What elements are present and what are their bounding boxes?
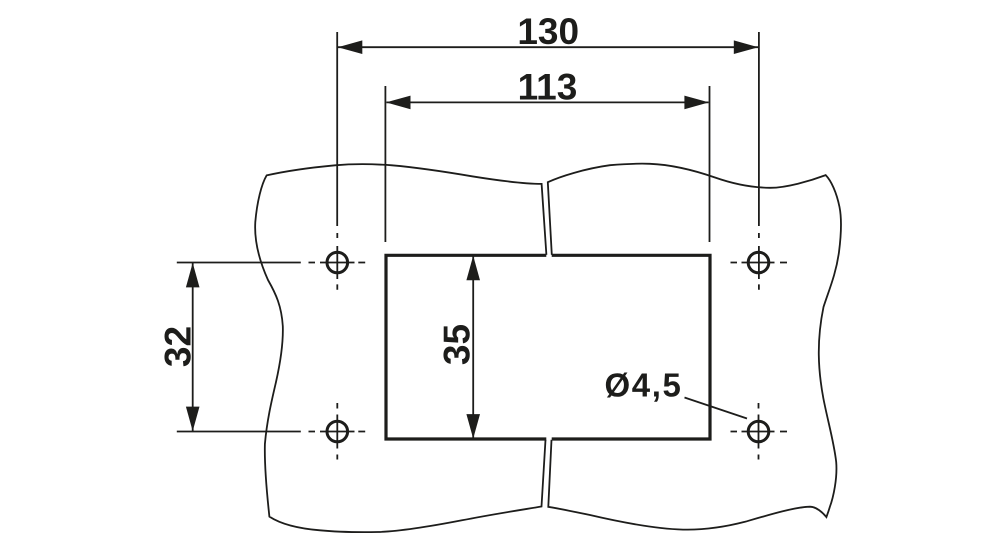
centerline horizontal bottom-right hole bbox=[731, 431, 788, 433]
dimension line 35 bbox=[472, 256, 474, 439]
cutout rectangle right part bbox=[552, 255, 710, 439]
arrowhead 32 top bbox=[186, 263, 200, 288]
dimension line 113 bbox=[386, 101, 708, 103]
dimension line 32 bbox=[192, 263, 194, 431]
centerline horizontal top-right hole bbox=[731, 262, 788, 264]
cutout rectangle left part bbox=[386, 255, 546, 439]
hole top-right bbox=[748, 252, 769, 273]
svg-text:Ø4,5: Ø4,5 bbox=[605, 367, 683, 404]
hole bottom-left bbox=[327, 421, 348, 442]
centerline vertical bottom-right hole bbox=[758, 403, 760, 460]
extension line 113 left bbox=[384, 86, 386, 242]
hole top-left bbox=[327, 252, 348, 273]
dimension line 130 bbox=[338, 46, 758, 48]
arrowhead 113 right bbox=[684, 96, 709, 110]
panel left piece outline bbox=[255, 164, 546, 532]
svg-text:35: 35 bbox=[437, 324, 478, 365]
hole bottom-right bbox=[748, 421, 769, 442]
extension line 130 right bbox=[758, 32, 760, 226]
centerline horizontal top-left hole bbox=[309, 262, 366, 264]
svg-text:113: 113 bbox=[518, 66, 578, 107]
centerline vertical bottom-left hole bbox=[336, 403, 338, 460]
arrowhead 130 left bbox=[338, 40, 363, 54]
arrowhead 32 bottom bbox=[186, 407, 200, 432]
extension line 32 top bbox=[177, 262, 301, 264]
svg-text:32: 32 bbox=[157, 326, 198, 367]
centerline vertical top-right hole dashes bbox=[758, 233, 760, 290]
centerline horizontal bottom-left hole bbox=[309, 431, 366, 433]
centerline vertical top-left hole dashes bbox=[336, 233, 338, 290]
leader line for hole diameter bbox=[685, 398, 748, 419]
arrowhead 35 bottom bbox=[466, 414, 480, 439]
panel right piece outline bbox=[548, 164, 841, 530]
arrowhead 35 top bbox=[466, 256, 480, 280]
arrowhead 113 left bbox=[386, 96, 411, 110]
extension line 32 bottom bbox=[177, 431, 301, 433]
extension line 113 right bbox=[709, 86, 711, 242]
arrowhead 130 right bbox=[734, 40, 759, 54]
svg-text:130: 130 bbox=[517, 11, 579, 52]
extension line 130 left bbox=[336, 32, 338, 226]
